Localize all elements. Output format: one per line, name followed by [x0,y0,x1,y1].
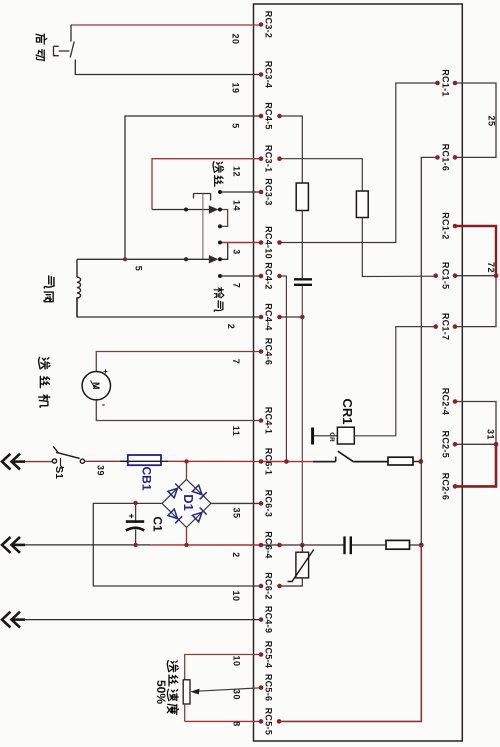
pin RC4-10 [259,226,282,259]
pin RC4-2 [259,262,282,290]
svg-text:10: 10 [231,590,241,601]
svg-text:31: 31 [486,429,496,440]
junction: R3 right on long vertical [418,459,423,464]
wire: arrow3 to RC4-9 [25,619,261,621]
svg-text:50%: 50% [154,680,168,704]
wire: arrow1 to switch S1 [25,461,52,463]
pin RC1-2 [441,212,458,240]
svg-text:RC1-2: RC1-2 [441,212,451,240]
pin RC3-4 [259,61,274,89]
svg-text:RC4-2: RC4-2 [264,262,274,290]
right wire RC2-6 (thick) up to 31 node [455,444,496,486]
resistor R3 (contact row) [388,457,413,465]
gas valve row wire (node 5 row) [77,257,214,261]
pin RC4-5 [259,102,282,130]
right wire RC1-2 (thick) down to 72 node [455,226,496,276]
input arrow 1 (left edge, node 39 row) [2,454,25,470]
label 送丝机 (wire feeder) [39,357,50,407]
right loop 31: RC2-4 / RC2-5 [455,402,498,447]
svg-text:5: 5 [134,266,144,272]
svg-text:30: 30 [231,689,241,700]
pin RC4-4 [259,303,282,331]
wire 35: D1 right vertex to RC6-3 [211,502,261,504]
start push-button switch [54,42,75,58]
svg-text:RC6-3: RC6-3 [264,490,274,518]
label 送丝速度 (wire feed speed) [167,661,178,715]
wire: R1 bottom to capacitor C2 [301,211,303,279]
wire: S1 to CB1 [85,460,129,462]
circuit breaker CB1 (fuse) [120,455,168,465]
label 送丝 (wire feed) [213,162,223,187]
pin RC5-5 [259,708,282,736]
label 检气 (gas check) [214,288,224,312]
wire 8: potentiometer bottom to RC5-5 [185,720,261,722]
capacitor C2 (internal) [294,279,312,317]
wire 2: gas valve bottom to RC4-4 [77,297,261,317]
pin RC3-3 [259,178,274,206]
node-2 row inside block: RC6-4 to long vertical [261,543,424,548]
svg-text:RC1-7: RC1-7 [441,313,451,341]
svg-text:7: 7 [232,283,242,289]
center vertical: RC4-4 node down to node-2 row [301,317,303,545]
resistor R1 [296,183,308,211]
svg-text:C1: C1 [151,516,165,532]
pin RC5-4 [259,641,274,669]
svg-text:+: + [103,367,108,376]
svg-text:RC4-9: RC4-9 [264,606,274,634]
svg-text:S1: S1 [53,466,65,479]
wire: R3 to long vertical [413,461,421,463]
pin RC4-1 [259,407,274,435]
potentiometer wiper arrow to RC5-6 [191,688,262,695]
svg-text:25: 25 [487,115,497,126]
svg-text:12: 12 [232,166,242,177]
capacitor C3 (horizontal, node-2 row) [345,536,351,554]
wire 20: start button top to RC3-2 [71,25,261,42]
inner wire: RC4-5 to resistor R1 top [280,116,303,183]
svg-text:5: 5 [231,123,241,129]
inner wire: RC5-5 to long vertical bottom [279,545,421,721]
svg-text:3: 3 [232,249,242,255]
svg-text:RC1-1: RC1-1 [441,69,451,97]
pin RC4-6 [259,338,274,366]
svg-text:RC1-5: RC1-5 [441,262,451,290]
svg-text:CR1: CR1 [340,398,355,424]
wire: CR1 coil right to RC1-7 loop [354,327,435,436]
svg-text:10: 10 [231,655,241,666]
pin RC6-1 [259,448,274,476]
pin RC5-6 [259,674,274,702]
svg-text:7: 7 [231,359,241,365]
svg-text:RC4-1: RC4-1 [264,407,274,435]
resistor R4 (node-2 row) [386,540,410,549]
wire feed selector switch (two poles) [184,190,228,263]
svg-text:RC3-3: RC3-3 [264,178,274,206]
wire 11: motor bottom to RC4-1 [96,400,261,421]
inner wire: RC4-4 to center junction [280,316,303,318]
wire: D1 left vertex to left loop and C1 top [93,503,261,586]
svg-text:-: - [102,400,105,410]
svg-text:2: 2 [231,552,241,558]
svg-text:35: 35 [231,507,241,518]
svg-text:CR: CR [328,432,335,442]
svg-text:8: 8 [231,721,241,727]
relay coil CR1 [313,427,355,444]
pin RC3-2 [259,11,274,39]
inner wire: RC3-1 to resistor R2 top [280,159,363,191]
capacitor C1 (polarized) [126,503,144,544]
svg-text:RC4-10: RC4-10 [264,226,274,259]
svg-text:RC2-5: RC2-5 [441,431,451,459]
svg-text:39: 39 [96,465,106,476]
svg-text:RC2-6: RC2-6 [441,473,451,501]
pin RC1-5 [433,262,457,290]
svg-text:RC5-4: RC5-4 [264,641,274,669]
svg-text:RC2-4: RC2-4 [441,388,451,416]
inner wire: RC4-10 up-loop to RC1-1 [280,83,438,243]
inner wire: RC4-2 down to node-39 row [280,276,287,462]
svg-text:RC6-4: RC6-4 [264,531,274,559]
node-39 row inside block: RC6-1 to CR1 contact [261,459,336,464]
relay contact CR1 (N.O.) [336,451,388,461]
wire 7: RC4-2 to gas-check contact [218,274,261,278]
junction: C1 top tap [133,501,137,505]
svg-text:RC3-4: RC3-4 [264,61,274,89]
potentiometer body (wire feed speed) [183,680,190,722]
resistor R2 [356,191,368,218]
right loop 72: RC1-5 / RC1-7 [455,273,498,326]
svg-text:11: 11 [231,426,241,437]
main control board block outline [254,4,463,741]
svg-text:RC6-1: RC6-1 [264,448,274,476]
pin RC6-3 [259,490,274,518]
wire: junction down to D1 top vertex [186,462,188,480]
label 启动 (start) [36,34,47,61]
wire feed motor M [82,367,110,410]
pin RC6-4 [259,531,282,559]
wire 5: RC4-5 left, down to gas-valve row [125,116,261,259]
label 气阀 (gas valve) [44,276,54,302]
svg-text:72: 72 [486,262,496,273]
pin RC2-5 [441,431,458,459]
pin RC2-6 [441,473,458,501]
svg-text:RC4-4: RC4-4 [264,303,274,331]
pin RC1-1 [435,69,457,97]
bridge rectifier D1 [162,479,211,527]
svg-text:RC3-1: RC3-1 [264,145,274,173]
wire 10: RC5-4 to potentiometer top [185,655,261,680]
svg-text:D1: D1 [181,494,196,511]
pin RC3-1 [259,145,282,173]
svg-text:RC4-5: RC4-5 [264,102,274,130]
wire: arrow2 row to RC6-4 with C1 and D1 bottom taps [25,527,261,547]
svg-text:+: + [127,513,137,518]
wire 19: start button bottom to RC3-4 [75,60,261,75]
svg-text:RC3-2: RC3-2 [264,11,274,39]
wire 7: motor top to RC4-6 [96,352,261,372]
svg-text:RC5-5: RC5-5 [264,708,274,736]
varistor RT [280,545,314,586]
right loop 25: RC1-1 to RC1-6 [455,83,496,157]
input arrow 3 (left edge, RC4-9 row) [2,612,25,628]
svg-text:RC5-6: RC5-6 [264,674,274,702]
svg-text:20: 20 [231,33,241,44]
svg-text:RC4-6: RC4-6 [264,338,274,366]
svg-text:RC6-2: RC6-2 [264,572,274,600]
pin RC6-2 [259,572,282,600]
long vertical: RC1-6 down to node-2 row [421,157,437,545]
svg-text:CB1: CB1 [140,466,154,490]
switch S1 [52,446,84,467]
svg-text:RC1-6: RC1-6 [441,144,451,172]
gas valve solenoid coil [77,259,81,317]
wire 3: RC4-10 to feed switch lower contact [218,241,261,245]
junction: D1 top tap on node-39 row [184,459,188,463]
pin RC1-7 [433,313,457,341]
svg-text:14: 14 [232,200,242,211]
wire: R2 bottom to RC1-5 [362,218,435,277]
pin RC2-4 [441,388,458,416]
wire: CB1 to RC6-1 [168,460,261,462]
input arrow 2 (left edge, node 2 row) [2,537,25,553]
wire 12: RC3-1 left, down to feed switch common [152,159,261,210]
pin RC1-6 [435,144,457,172]
svg-text:2: 2 [226,324,236,330]
pin RC4-9 [259,606,274,634]
junction: C2 bottom / RC4-4 node [300,315,305,320]
wire 14: RC3-3 to feed switch upper contact [220,191,261,193]
svg-text:19: 19 [231,82,241,93]
